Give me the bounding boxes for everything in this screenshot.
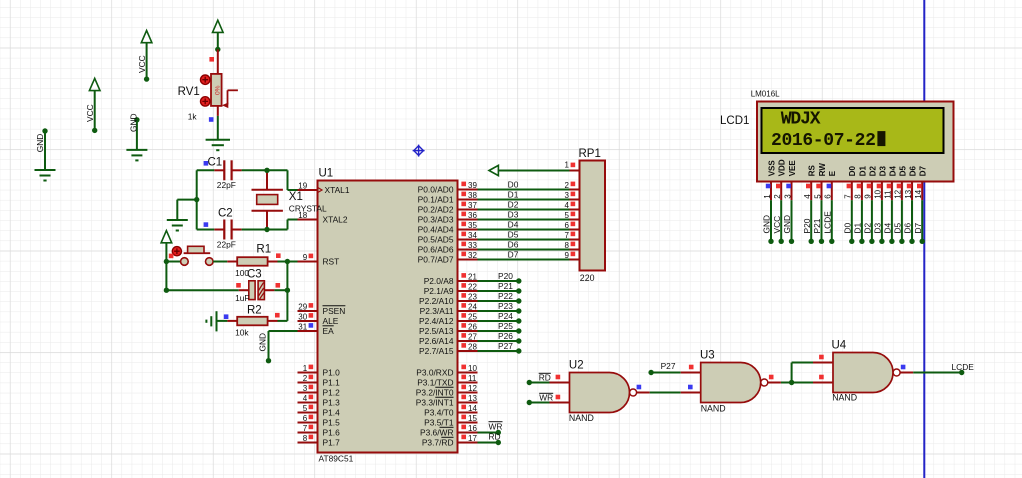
RP1 pin 4 / wire D2: [478, 200, 580, 210]
svg-text:33: 33: [468, 241, 477, 250]
svg-text:P3.2/INT0: P3.2/INT0: [416, 388, 454, 398]
U1 pin 19 XTAL1: [298, 181, 350, 195]
U1 pin 35 P0.4/AD4: [418, 221, 478, 235]
svg-text:P26: P26: [498, 331, 513, 341]
svg-text:U3: U3: [700, 350, 715, 362]
svg-text:11: 11: [884, 190, 893, 199]
svg-text:VDD: VDD: [778, 159, 787, 176]
svg-text:8: 8: [854, 194, 863, 199]
svg-text:NAND: NAND: [832, 393, 857, 403]
svg-text:D5: D5: [508, 230, 519, 240]
LCD pin 1 VSS / net GND: [762, 160, 777, 244]
svg-text:D7: D7: [913, 222, 923, 233]
U1 pin 18 XTAL2: [298, 211, 348, 225]
svg-text:P3.7/RD: P3.7/RD: [422, 438, 454, 448]
power symbol VCC above RV1: [213, 20, 224, 52]
svg-text:LCDE: LCDE: [952, 362, 975, 372]
svg-text:RS: RS: [808, 165, 817, 177]
svg-text:VEE: VEE: [788, 160, 797, 177]
svg-text:P23: P23: [498, 301, 513, 311]
svg-text:P3.6/WR: P3.6/WR: [420, 428, 454, 438]
svg-text:P2.3/A11: P2.3/A11: [420, 306, 454, 316]
svg-text:XTAL2: XTAL2: [323, 215, 348, 225]
svg-text:RD: RD: [539, 372, 551, 382]
U1 pin 15 P3.5/T1: [424, 414, 477, 428]
U1 pin 1 P1.0: [298, 364, 341, 378]
U1 pin 9 RST: [298, 253, 340, 267]
resistor R1: [227, 257, 277, 266]
svg-text:P1.7: P1.7: [323, 438, 341, 448]
wire C1-C2 left vertical to ground: [177, 170, 199, 229]
U1 pin 34 P0.5/AD5: [418, 231, 478, 245]
svg-text:36: 36: [468, 211, 477, 220]
capacitor C2: [214, 220, 241, 240]
value CRYSTAL: [289, 204, 327, 214]
svg-text:34: 34: [468, 231, 477, 240]
svg-text:P0.1/AD1: P0.1/AD1: [418, 195, 454, 205]
wire EA to GND net: [266, 331, 298, 363]
capacitor C3 (electrolytic): [239, 281, 275, 300]
svg-text:P2.2/A10: P2.2/A10: [419, 296, 454, 306]
LCD pin 12 D5 / net D5: [893, 166, 908, 244]
svg-text:WDJX: WDJX: [781, 110, 821, 130]
svg-text:D0: D0: [848, 166, 857, 177]
wire U2 output to U3: [650, 392, 681, 394]
svg-text:D5: D5: [893, 222, 903, 233]
svg-text:4: 4: [565, 201, 570, 210]
svg-text:35: 35: [468, 221, 477, 230]
capacitor C1: [214, 160, 241, 180]
svg-text:P3.4/T0: P3.4/T0: [424, 408, 454, 418]
U1 pin 6 P1.5: [298, 414, 341, 428]
marker squares U4: [819, 355, 905, 380]
svg-text:12: 12: [894, 189, 903, 198]
svg-text:15: 15: [468, 414, 477, 423]
svg-text:P21: P21: [498, 281, 513, 291]
svg-text:30: 30: [298, 312, 307, 321]
svg-text:1: 1: [565, 160, 570, 169]
svg-text:GND: GND: [128, 113, 138, 132]
svg-text:R2: R2: [247, 304, 262, 316]
U1 pin 28 P2.7/A15: [419, 342, 477, 356]
wire RST node vertical: [285, 262, 290, 321]
svg-text:GND: GND: [762, 215, 772, 234]
LCD pin 11 D4 / net D4: [883, 166, 898, 244]
svg-text:NAND: NAND: [569, 413, 594, 423]
svg-text:38: 38: [468, 191, 477, 200]
svg-text:XTAL1: XTAL1: [325, 185, 350, 195]
power symbol VCC (left #2): [137, 31, 152, 82]
U1 pin 25 P2.4/A12: [419, 312, 477, 326]
U1 pin 2 P1.1: [298, 374, 341, 388]
net label GND (EA): [257, 333, 267, 352]
svg-text:10k: 10k: [235, 327, 249, 337]
svg-text:32: 32: [468, 251, 477, 260]
svg-text:D4: D4: [888, 166, 897, 177]
svg-text:9: 9: [565, 251, 570, 260]
origin marker: [413, 145, 425, 157]
U1 pin 38 P0.1/AD1: [418, 191, 478, 205]
svg-text:1k: 1k: [188, 111, 198, 121]
RP1 pin 9 / wire D7: [478, 250, 580, 260]
LCD pin 4 RS / net P20: [802, 165, 817, 244]
U1 pin 4 P1.3: [298, 394, 341, 408]
svg-text:D7: D7: [919, 166, 928, 177]
svg-text:D0: D0: [508, 180, 519, 190]
svg-text:C1: C1: [208, 157, 223, 169]
RP1 pin 1 with input arrow: [489, 160, 580, 175]
svg-text:D4: D4: [508, 220, 519, 230]
svg-text:X1: X1: [289, 191, 303, 203]
svg-text:17: 17: [468, 434, 477, 443]
label RP1: [579, 148, 601, 160]
label R2: [247, 304, 262, 316]
U1 pin 24 P2.3/A11: [420, 302, 478, 316]
svg-text:7: 7: [303, 424, 308, 433]
svg-text:P0.0/AD0: P0.0/AD0: [418, 185, 454, 195]
svg-text:PSEN: PSEN: [323, 306, 346, 316]
label U2: [569, 360, 584, 372]
RP1 pin 3 / wire D1: [478, 190, 580, 200]
label R1: [256, 244, 271, 256]
U1 pin 10 P3.0/RXD: [416, 364, 477, 378]
svg-text:14: 14: [468, 404, 477, 413]
LCD pin 6 E / net LCDE: [822, 170, 837, 244]
U1 pin 26 P2.5/A13: [419, 322, 477, 336]
svg-text:16: 16: [468, 424, 477, 433]
value 100: [235, 268, 249, 278]
U1 pin 3 P1.2: [298, 384, 341, 398]
wire P26 net: [478, 331, 522, 343]
value 22pF (C2): [217, 240, 236, 250]
marker squares C3: [236, 283, 280, 288]
power symbol VCC for reset button: [161, 231, 172, 265]
svg-text:5: 5: [565, 211, 570, 220]
LCD pin 13 D6 / net D6: [903, 166, 918, 244]
svg-text:24: 24: [468, 302, 477, 311]
RP1 pin 7 / wire D5: [478, 230, 580, 240]
svg-text:31: 31: [298, 322, 307, 331]
svg-text:7: 7: [844, 194, 853, 199]
svg-text:RW: RW: [818, 163, 827, 177]
svg-text:P21: P21: [812, 218, 822, 233]
svg-text:CRYSTAL: CRYSTAL: [289, 204, 327, 214]
U1 pin 14 P3.4/T0: [424, 404, 477, 418]
U1 pin 27 P2.6/A14: [419, 332, 477, 346]
svg-text:D3: D3: [873, 222, 883, 233]
NAND gate U3: [681, 363, 781, 403]
LCD pin 10 D3 / net D3: [873, 166, 888, 244]
svg-text:2016-07-22: 2016-07-22: [771, 131, 876, 151]
label RV1: [178, 86, 200, 98]
svg-text:D2: D2: [508, 200, 519, 210]
svg-text:23: 23: [468, 292, 477, 301]
wire P25 net: [478, 321, 522, 333]
push button (reset): [166, 246, 213, 265]
svg-text:1: 1: [763, 194, 772, 199]
microcontroller U1 body: [318, 181, 458, 453]
wire P23 net: [478, 301, 522, 313]
NAND gate U4: [813, 353, 913, 393]
svg-text:P0.5/AD5: P0.5/AD5: [418, 235, 454, 245]
U1 pin 39 P0.0/AD0: [418, 181, 478, 195]
svg-text:P27: P27: [661, 361, 676, 371]
LCD display text: [771, 110, 885, 151]
svg-text:13: 13: [468, 394, 477, 403]
svg-text:D1: D1: [508, 190, 519, 200]
svg-text:P24: P24: [498, 311, 513, 321]
svg-text:39: 39: [468, 181, 477, 190]
svg-text:4: 4: [303, 394, 308, 403]
sheet border line: [923, 0, 925, 478]
svg-text:8: 8: [303, 434, 308, 443]
svg-text:22: 22: [468, 282, 477, 291]
label X1: [289, 191, 303, 203]
svg-text:P2.4/A12: P2.4/A12: [419, 316, 454, 326]
value 220: [580, 273, 595, 283]
svg-text:26: 26: [468, 322, 477, 331]
svg-text:25: 25: [468, 312, 477, 321]
svg-text:19: 19: [298, 181, 307, 190]
marker squares R2: [224, 313, 280, 319]
svg-text:9: 9: [303, 253, 308, 262]
svg-text:8: 8: [565, 241, 570, 250]
label U3: [700, 350, 715, 362]
LCD LCD1 LM016L body: [757, 102, 954, 182]
svg-text:P20: P20: [802, 218, 812, 233]
svg-text:11: 11: [468, 374, 477, 383]
svg-text:P1.6: P1.6: [323, 428, 341, 438]
power symbol GND (far left): [35, 128, 56, 180]
value 1uF: [235, 293, 249, 303]
svg-text:WR: WR: [539, 392, 553, 402]
svg-text:10: 10: [874, 189, 883, 198]
svg-text:R1: R1: [256, 244, 271, 256]
svg-text:P2.7/A15: P2.7/A15: [419, 346, 454, 356]
U1 pin 33 P0.6/AD6: [418, 241, 478, 255]
svg-text:D5: D5: [898, 166, 907, 177]
svg-text:VCC: VCC: [772, 216, 782, 234]
wire P20 net: [478, 271, 522, 283]
marker square R1: [276, 253, 281, 258]
svg-text:0%: 0%: [215, 85, 222, 95]
wire VCC branch down to C3: [164, 262, 239, 293]
wire WR net (U1 pin16): [478, 422, 503, 436]
label C1: [204, 157, 223, 169]
svg-text:14: 14: [914, 189, 923, 198]
svg-text:12: 12: [468, 384, 477, 393]
svg-text:P2.5/A13: P2.5/A13: [419, 326, 454, 336]
LCD pin 5 RW / net P21: [812, 163, 827, 244]
wire RV1 to ground: [217, 116, 219, 140]
value AT89C51: [319, 454, 354, 464]
svg-text:22pF: 22pF: [217, 180, 236, 190]
wire R2 to RST node: [278, 320, 288, 322]
svg-text:RP1: RP1: [579, 148, 601, 160]
U1 pin 13 P3.3/INT1: [416, 394, 478, 408]
svg-text:WR: WR: [489, 422, 503, 432]
wire C2 net to XTAL2: [197, 220, 298, 233]
label U4: [832, 340, 847, 352]
wire P24 net: [478, 311, 522, 323]
wire C3 to RST node: [274, 289, 287, 291]
U1 pin 30 ALE: [298, 312, 339, 326]
RP1 pin 5 / wire D3: [478, 210, 580, 220]
svg-text:P1.2: P1.2: [323, 388, 341, 398]
svg-text:D6: D6: [903, 222, 913, 233]
resistor pack RP1 body: [580, 161, 606, 271]
crystal X1: [252, 170, 283, 229]
svg-text:P22: P22: [498, 291, 513, 301]
svg-text:P2.1/A9: P2.1/A9: [424, 286, 454, 296]
svg-text:29: 29: [298, 302, 307, 311]
U1 pin 23 P2.2/A10: [419, 292, 477, 306]
resistor R2: [227, 317, 277, 326]
RP1 pin 2 / wire D0: [478, 180, 580, 190]
svg-text:P0.4/AD4: P0.4/AD4: [418, 225, 454, 235]
LCD pin 9 D2 / net D2: [863, 166, 878, 244]
svg-text:28: 28: [468, 342, 477, 351]
wire RD to U2 input: [527, 372, 551, 385]
ground symbol for R2 (rotated): [206, 311, 227, 331]
power symbol VCC (left #1): [85, 78, 100, 133]
marker squares U2: [556, 375, 642, 400]
U1 pin 22 P2.1/A9: [424, 282, 478, 296]
svg-text:RD: RD: [489, 432, 501, 442]
U1 pin 17 P3.7/RD: [422, 434, 478, 448]
svg-text:P27: P27: [498, 341, 513, 351]
label U1: [319, 168, 334, 180]
svg-text:NAND: NAND: [701, 404, 726, 414]
svg-text:P1.1: P1.1: [323, 378, 341, 388]
wire RD net (U1 pin17): [478, 432, 501, 446]
svg-text:P1.0: P1.0: [323, 368, 341, 378]
svg-text:P25: P25: [498, 321, 513, 331]
svg-text:RV1: RV1: [178, 86, 200, 98]
U1 pin 37 P0.2/AD2: [418, 201, 478, 215]
label C2: [204, 208, 233, 227]
svg-text:P3.3/INT1: P3.3/INT1: [416, 398, 454, 408]
LCD pin 3 VEE / net GND: [782, 160, 797, 244]
svg-text:10: 10: [468, 364, 477, 373]
svg-text:LCD1: LCD1: [720, 115, 749, 127]
svg-text:6: 6: [824, 194, 833, 199]
svg-text:3: 3: [565, 191, 570, 200]
U1 pin 32 P0.7/AD7: [418, 251, 478, 265]
svg-text:2: 2: [565, 181, 570, 190]
svg-text:6: 6: [303, 414, 308, 423]
svg-text:LCDE: LCDE: [822, 211, 832, 234]
svg-text:ALE: ALE: [323, 316, 339, 326]
svg-text:P0.3/AD3: P0.3/AD3: [418, 215, 454, 225]
svg-text:P3.0/RXD: P3.0/RXD: [416, 368, 453, 378]
svg-text:U2: U2: [569, 360, 584, 372]
U1 pin 5 P1.4: [298, 404, 341, 418]
value 22pF (C1): [217, 180, 236, 190]
value NAND (U3): [701, 404, 726, 414]
svg-text:P0.2/AD2: P0.2/AD2: [418, 205, 454, 215]
svg-text:5: 5: [813, 194, 822, 199]
value 10k: [235, 327, 249, 337]
svg-text:P1.3: P1.3: [323, 398, 341, 408]
svg-text:C2: C2: [218, 208, 233, 220]
svg-text:13: 13: [904, 189, 913, 198]
svg-text:6: 6: [565, 221, 570, 230]
wire P27 net to U3 input: [648, 361, 680, 375]
svg-text:D7: D7: [508, 250, 519, 260]
RP1 pin 6 / wire D4: [478, 220, 580, 230]
ground symbol for C1/C2: [167, 200, 188, 231]
svg-text:D1: D1: [858, 166, 867, 177]
svg-text:37: 37: [468, 201, 477, 210]
svg-text:220: 220: [580, 273, 595, 283]
wire C1 net to XTAL1: [197, 168, 298, 190]
value NAND (U4): [832, 393, 857, 403]
wire U3 output fanout to U4 inputs: [781, 363, 813, 386]
ground symbol below RV1: [206, 140, 230, 151]
svg-text:D6: D6: [508, 240, 519, 250]
U1 pin 8 P1.7: [298, 434, 341, 448]
svg-text:1: 1: [303, 364, 308, 373]
U1 pin 29 PSEN: [298, 302, 346, 316]
power symbol GND (left #2): [126, 113, 147, 160]
svg-text:2: 2: [773, 194, 782, 199]
svg-text:P3.5/T1: P3.5/T1: [424, 418, 454, 428]
wire R1 to RST pin: [278, 259, 298, 264]
svg-text:P3.1/TXD: P3.1/TXD: [417, 378, 453, 388]
wire button to R1: [213, 261, 227, 263]
wire P21 net: [478, 281, 522, 293]
LCD pin 14 D7 / net D7: [913, 166, 928, 244]
svg-text:P1.4: P1.4: [323, 408, 341, 418]
svg-text:D3: D3: [878, 166, 887, 177]
potentiometer RV1: [201, 49, 238, 116]
LCD pin 2 VDD / net VCC: [772, 159, 787, 244]
svg-text:18: 18: [298, 211, 307, 220]
label C3: [247, 268, 262, 280]
value 1k: [188, 111, 198, 121]
svg-text:D4: D4: [883, 222, 893, 233]
svg-text:D0: D0: [842, 222, 852, 233]
svg-text:27: 27: [468, 332, 477, 341]
svg-text:D1: D1: [853, 222, 863, 233]
U1 pin 7 P1.6: [298, 424, 341, 438]
marker squares RV1: [209, 57, 214, 122]
svg-text:2: 2: [303, 374, 308, 383]
wire P27 net: [478, 341, 522, 353]
svg-text:D6: D6: [908, 166, 917, 177]
svg-text:U4: U4: [832, 340, 847, 352]
svg-text:1uF: 1uF: [235, 293, 249, 303]
wire WR to U2 input: [527, 392, 554, 405]
marker squares U3: [688, 365, 774, 390]
svg-text:P20: P20: [498, 271, 513, 281]
svg-text:4: 4: [803, 194, 812, 199]
U1 pin 36 P0.3/AD3: [418, 211, 478, 225]
svg-text:GND: GND: [782, 215, 792, 234]
svg-text:22pF: 22pF: [217, 240, 236, 250]
svg-text:P0.6/AD6: P0.6/AD6: [418, 245, 454, 255]
svg-text:VSS: VSS: [767, 160, 776, 177]
svg-text:U1: U1: [319, 168, 334, 180]
svg-text:3: 3: [303, 384, 308, 393]
svg-text:VCC: VCC: [85, 104, 95, 122]
svg-text:3: 3: [783, 194, 792, 199]
LCD pin 8 D1 / net D1: [853, 166, 868, 244]
svg-text:C3: C3: [247, 268, 262, 280]
wire U4 output LCDE net: [913, 362, 974, 375]
U1 pin 11 P3.1/TXD: [417, 374, 477, 388]
